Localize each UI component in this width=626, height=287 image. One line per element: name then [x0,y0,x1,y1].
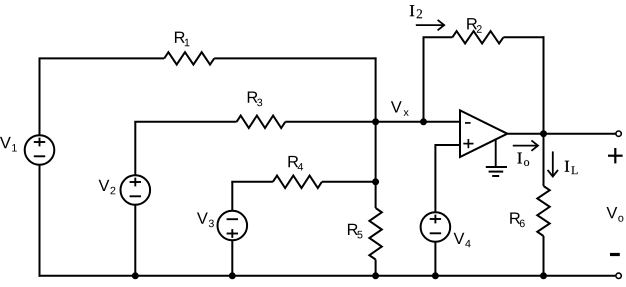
junction R6 bottom [540,272,547,279]
terminal output + [616,131,621,136]
ground [486,139,507,176]
wire V3 bottom lead [231,240,233,276]
op-amp U1 [460,110,507,157]
wire node column vertical [375,57,377,208]
wire V3 to R4 [231,181,273,183]
junction R5 bottom [372,272,379,279]
wire R6 bottom lead [543,236,545,276]
label Io [517,153,529,166]
junction feedback/inverting input [420,118,427,125]
resistor R4 [273,176,322,188]
voltage source V2 [121,175,151,205]
wire V4 top lead [434,144,436,213]
current arrow IL [548,151,558,176]
label R1 [175,32,189,47]
label IL [565,161,578,174]
voltage source V1 [25,135,55,165]
junction V2 bottom [132,272,139,279]
voltage source V4 [421,212,451,242]
wire R3 to op-amp inverting input (node Vx) [285,121,460,123]
wire R5 bottom lead [375,260,377,276]
wire R4 to node column [322,181,376,183]
label Vo output [606,207,623,222]
wire R6 top lead [543,134,545,186]
wire V4 bottom lead [434,242,436,276]
resistor R3 [237,116,286,128]
junction V3 bottom [229,272,236,279]
label R6 [510,213,525,228]
label R3 [248,92,263,107]
wire bottom rail [39,275,617,277]
label I2 [410,5,422,18]
output polarity plus [608,148,623,163]
wire left vertical upper (V1 top lead) [39,57,41,135]
wire op-amp output [507,133,616,135]
label R5 [348,224,363,239]
junction V4 bottom [432,272,439,279]
wire V2 top lead [134,122,136,176]
label V2 [99,180,116,195]
wire left vertical lower (V1 bottom lead) [39,165,41,277]
label R2 [467,18,481,33]
wire R1 to corner [214,57,376,59]
label V3 [197,213,214,228]
terminal output - [616,273,621,278]
junction R4/R5 [372,178,379,185]
wire feedback right vertical [543,36,545,133]
output polarity minus [610,253,620,256]
wire top from V1 to node column [40,57,165,59]
wire feedback left vertical [423,37,425,121]
resistor R6 [537,186,549,236]
label R4 [288,156,303,171]
resistor R1 [164,52,214,64]
voltage source V3 [218,211,248,241]
wire V3 top lead [231,182,233,211]
label Vx node [391,101,409,116]
wire V2 to R3 [134,121,236,123]
wire op-amp noninverting input [435,144,460,146]
resistor R5 [369,208,381,260]
current arrow Io [513,140,538,150]
wire V2 bottom lead [134,205,136,276]
node Vx junction [372,118,379,125]
current arrow I2 [416,20,444,30]
resistor R2 [452,31,503,43]
label V4 [454,233,471,248]
wire feedback top left [423,36,453,38]
junction output node [540,130,547,137]
wire feedback top right [503,36,544,38]
label V1 [0,137,17,152]
